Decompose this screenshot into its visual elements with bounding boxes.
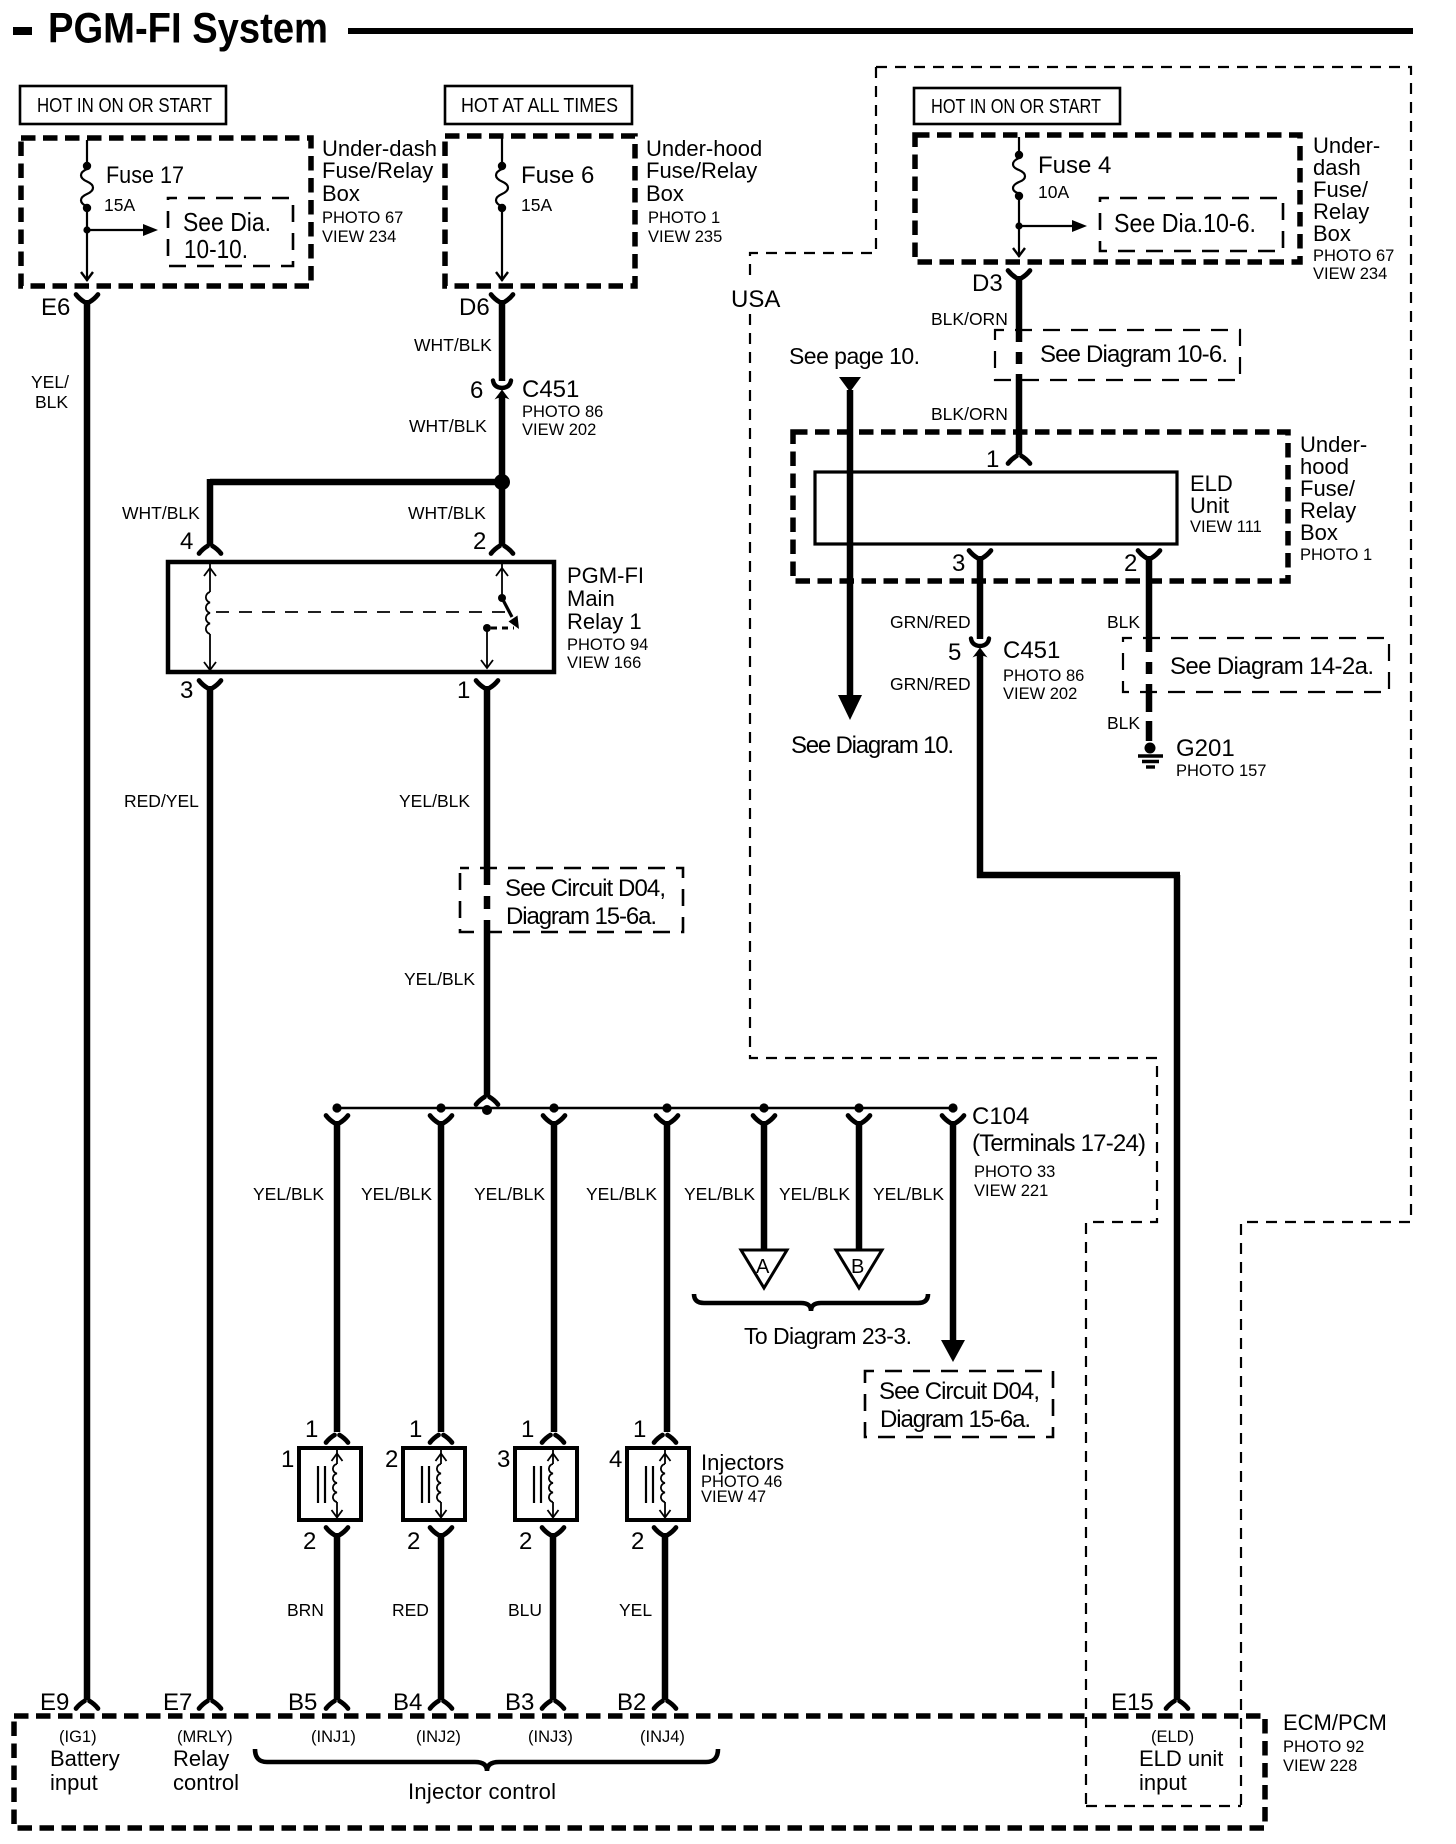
svg-text:E15: E15 (1111, 1689, 1154, 1716)
injector 1 (281, 1416, 361, 1700)
wire relay pin1 down (YEL/BLK) (484, 686, 491, 872)
under-hood fuse/relay box (dashed) (445, 136, 635, 286)
ground G201 (1138, 735, 1266, 780)
svg-text:B5: B5 (288, 1689, 317, 1716)
svg-text:3: 3 (180, 677, 193, 704)
fuse F17 wire top (86, 140, 88, 166)
svg-text:WHT/BLK: WHT/BLK (408, 503, 486, 523)
svg-text:2: 2 (407, 1528, 420, 1555)
title rule (348, 28, 1413, 34)
exit arrowhead at box edge (D3) (1013, 248, 1025, 256)
junction dot on bus (436, 1103, 445, 1112)
svg-text:See Dia.: See Dia. (183, 207, 271, 237)
svg-text:Injector control: Injector control (408, 1779, 556, 1804)
arrow to See Dia. 10-10 (87, 224, 158, 236)
relay label PGM-FI Main Relay 1 (567, 563, 648, 672)
fuse F4 wire top (1018, 137, 1020, 155)
svg-text:PHOTO 1: PHOTO 1 (1300, 546, 1372, 564)
svg-text:See Circuit D04,: See Circuit D04, (505, 875, 666, 902)
fuse F4 Fuse 4 10A (1013, 151, 1111, 202)
connector C451 pin 5 (inline pair) (948, 637, 1084, 703)
svg-text:PHOTO 92: PHOTO 92 (1283, 1738, 1364, 1756)
brace injector control (255, 1749, 718, 1771)
svg-text:Diagram 15-6a.: Diagram 15-6a. (880, 1406, 1031, 1433)
wire branch7 down (YEL/BLK) (950, 1121, 957, 1342)
svg-text:VIEW 235: VIEW 235 (648, 228, 722, 246)
svg-text:Diagram 15-6a.: Diagram 15-6a. (506, 903, 657, 930)
svg-text:B3: B3 (505, 1689, 534, 1716)
svg-text:VIEW 166: VIEW 166 (567, 654, 641, 672)
connector B4 (cap) (430, 1701, 439, 1709)
svg-text:GRN/RED: GRN/RED (890, 674, 971, 694)
svg-text:1: 1 (633, 1416, 646, 1443)
svg-text:E7: E7 (163, 1689, 192, 1716)
injector 2 (385, 1416, 465, 1700)
svg-text:Fuse/Relay: Fuse/Relay (646, 158, 757, 183)
svg-text:(Terminals 17-24): (Terminals 17-24) (972, 1130, 1146, 1157)
connector ELD pin 1 (cap) (1008, 456, 1017, 464)
connector branch 3 (cup) (543, 1116, 552, 1124)
See Diagram 14-2a. dashed box (1123, 638, 1389, 692)
connector D3 (cup) (1008, 271, 1017, 279)
svg-text:To Diagram 23-3.: To Diagram 23-3. (744, 1323, 912, 1349)
wire branch4 to injector4 (YEL/BLK) (664, 1121, 671, 1432)
See Dia.10-6. dashed box (1100, 198, 1283, 251)
wire ELD pin3 to C451 (GRN/RED) (977, 556, 984, 639)
arrowhead See Diagram 10 (838, 695, 862, 720)
svg-text:Box: Box (322, 181, 360, 206)
fuse F4 wire bottom (1018, 196, 1020, 257)
USA region dotted boundary left part upper (750, 67, 876, 282)
svg-text:VIEW 228: VIEW 228 (1283, 1757, 1357, 1775)
underhood box label (right) (1300, 432, 1372, 564)
fuse F6 wire bottom (501, 208, 503, 281)
See Circuit D04 Diagram 15-6a box (lower) (865, 1371, 1053, 1437)
svg-text:C451: C451 (522, 376, 579, 403)
svg-text:See page 10.: See page 10. (789, 343, 920, 369)
svg-text:USA: USA (731, 286, 780, 313)
injector 3 (497, 1416, 577, 1700)
svg-text:YEL/BLK: YEL/BLK (399, 791, 470, 811)
relay K1 PGM-FI Main Relay 1 box (168, 562, 554, 672)
ECM pin (ELD) ELD unit input (1139, 1728, 1223, 1795)
junction dot on bus (549, 1103, 558, 1112)
svg-text:1: 1 (281, 1446, 294, 1473)
wire C451 to junction (WHT/BLK) (499, 395, 506, 482)
svg-text:BLK: BLK (1107, 612, 1140, 632)
arrowhead into See Circuit D04 (941, 1340, 965, 1362)
wire label YEL/BLK (E6) (31, 372, 69, 412)
junction dot on bus (854, 1103, 863, 1112)
wire corner down to relay pin 4 (207, 479, 214, 546)
svg-text:2: 2 (473, 528, 486, 555)
connector branch 2 (cup) (430, 1116, 439, 1124)
wire D6 to C451 (WHT/BLK) (499, 300, 506, 381)
wire junction down to relay pin 2 (499, 482, 506, 546)
connector C451 pin 6 (inline pair) (470, 376, 603, 439)
svg-text:5: 5 (948, 639, 961, 666)
svg-text:3: 3 (497, 1446, 510, 1473)
wire down to E15 (1174, 875, 1181, 1700)
wire to bus (YEL/BLK) (484, 930, 491, 1097)
connector branch 7 (cup) (942, 1116, 951, 1124)
connector relay pin 1 (cup) (476, 681, 485, 689)
svg-text:1: 1 (409, 1416, 422, 1443)
svg-text:YEL/: YEL/ (31, 372, 69, 392)
HOT IN ON OR START box (left) (20, 86, 226, 124)
connector branch 1 (cup) (326, 1116, 335, 1124)
svg-text:VIEW 202: VIEW 202 (1003, 685, 1077, 703)
svg-text:1: 1 (305, 1416, 318, 1443)
svg-text:BLK: BLK (1107, 713, 1140, 733)
svg-text:BLK/ORN: BLK/ORN (931, 309, 1008, 329)
svg-text:2: 2 (385, 1446, 398, 1473)
underhood fuse/relay box around ELD (dashed) (793, 432, 1288, 581)
svg-text:1: 1 (986, 446, 999, 473)
svg-text:PHOTO 86: PHOTO 86 (522, 403, 603, 421)
svg-text:See Diagram 14-2a.: See Diagram 14-2a. (1170, 653, 1374, 680)
node A triangle (741, 1250, 787, 1288)
injectors label (701, 1450, 784, 1506)
under-dash fuse/relay box (right, dashed) (915, 135, 1300, 262)
relay actuator dashed line (216, 611, 508, 613)
junction dot on bus (482, 1105, 492, 1115)
connector ELD pin 3 (cup) (969, 551, 978, 559)
svg-text:BRN: BRN (287, 1600, 324, 1620)
connector B2 (cap) (654, 1701, 663, 1709)
svg-text:E6: E6 (41, 294, 70, 321)
svg-text:2: 2 (519, 1528, 532, 1555)
junction on F4 wire (1015, 222, 1022, 229)
svg-text:VIEW 221: VIEW 221 (974, 1182, 1048, 1200)
svg-text:(INJ4): (INJ4) (640, 1728, 685, 1746)
svg-text:D6: D6 (459, 294, 490, 321)
fuse F6 wire top (501, 138, 503, 166)
USA region dotted boundary left part lower (750, 314, 1157, 1806)
connector branch A (cup) (753, 1116, 762, 1124)
junction node (494, 474, 510, 490)
wire branch to node A (YEL/BLK) (761, 1121, 768, 1249)
svg-text:C451: C451 (1003, 637, 1060, 664)
svg-text:VIEW 234: VIEW 234 (322, 228, 396, 246)
svg-text:A: A (756, 1256, 770, 1278)
under-dash fuse/relay box (left, dashed) (21, 138, 311, 286)
wire ELD pin2 down (BLK) (1146, 556, 1153, 640)
svg-text:See Dia.10-6.: See Dia.10-6. (1114, 208, 1256, 238)
svg-text:WHT/BLK: WHT/BLK (414, 335, 492, 355)
HOT IN ON OR START box (right) (914, 88, 1120, 124)
svg-text:See Diagram 10.: See Diagram 10. (791, 732, 954, 759)
svg-text:G201: G201 (1176, 735, 1235, 762)
svg-text:PHOTO 1: PHOTO 1 (648, 209, 720, 227)
svg-text:PHOTO 94: PHOTO 94 (567, 636, 648, 654)
svg-text:HOT AT ALL TIMES: HOT AT ALL TIMES (461, 95, 618, 117)
svg-text:Unit: Unit (1190, 493, 1229, 518)
svg-text:VIEW 234: VIEW 234 (1313, 265, 1387, 283)
title dash (13, 27, 32, 35)
svg-text:Fuse 17: Fuse 17 (106, 162, 184, 189)
wire to ground (BLK) (1146, 692, 1153, 744)
wire D3 down (BLK/ORN) (1016, 276, 1023, 330)
svg-text:Fuse 4: Fuse 4 (1038, 152, 1111, 179)
svg-text:Fuse 6: Fuse 6 (521, 162, 594, 189)
wire relay pin3 to E7 (RED/YEL) (207, 686, 214, 1700)
svg-text:See Circuit D04,: See Circuit D04, (879, 1378, 1040, 1405)
svg-text:(IG1): (IG1) (59, 1728, 97, 1746)
arrow to See Dia.10-6 (1019, 220, 1087, 232)
arrow down from See page 10 (839, 377, 861, 392)
svg-text:WHT/BLK: WHT/BLK (409, 416, 487, 436)
connector D6 (cup) (491, 295, 500, 303)
ELD unit box (815, 472, 1177, 544)
svg-text:(INJ1): (INJ1) (311, 1728, 356, 1746)
svg-text:Injectors: Injectors (701, 1450, 784, 1475)
svg-text:Fuse/Relay: Fuse/Relay (322, 158, 433, 183)
wire branch1 to injector1 (YEL/BLK) (334, 1121, 341, 1432)
svg-text:PHOTO 67: PHOTO 67 (1313, 247, 1394, 265)
svg-text:(ELD): (ELD) (1151, 1728, 1194, 1746)
svg-text:3: 3 (952, 550, 965, 577)
svg-text:input: input (1139, 1770, 1187, 1795)
svg-text:PHOTO 86: PHOTO 86 (1003, 667, 1084, 685)
ECM pin (MRLY) Relay control (173, 1728, 239, 1795)
connector branch B (cup) (848, 1116, 857, 1124)
junction dot on bus (662, 1103, 671, 1112)
svg-text:RED/YEL: RED/YEL (124, 791, 199, 811)
relay coil branch (204, 564, 216, 670)
svg-text:HOT IN ON OR START: HOT IN ON OR START (37, 95, 212, 117)
USA region dotted boundary right part (876, 67, 1411, 1806)
svg-text:PGM-FI: PGM-FI (567, 563, 644, 588)
See Diagram 10-6. dashed box (995, 330, 1240, 380)
injector 4 (609, 1416, 689, 1700)
connector B5 (cap) (326, 1701, 335, 1709)
fuse F17 wire bottom (86, 208, 88, 281)
node B triangle (836, 1250, 882, 1288)
wire C451-5 down (GRN/RED) (977, 653, 984, 878)
svg-text:Box: Box (1313, 221, 1351, 246)
brace under A and B (694, 1294, 928, 1311)
svg-text:BLU: BLU (508, 1600, 542, 1620)
svg-text:Relay: Relay (173, 1746, 229, 1771)
svg-text:VIEW 111: VIEW 111 (1190, 518, 1262, 536)
See Circuit D04 Diagram 15-6a box (upper) (460, 868, 683, 932)
under-dash box label (322, 136, 437, 246)
bus C104 horizontal wire (334, 1107, 956, 1109)
svg-text:YEL/BLK: YEL/BLK (586, 1184, 657, 1204)
svg-text:control: control (173, 1770, 239, 1795)
svg-text:2: 2 (631, 1528, 644, 1555)
svg-text:YEL/BLK: YEL/BLK (474, 1184, 545, 1204)
connector at bus (cap) (476, 1097, 485, 1105)
connector E7 (cap) (199, 1701, 208, 1709)
svg-text:6: 6 (470, 377, 483, 404)
svg-text:15A: 15A (521, 195, 552, 215)
svg-text:(INJ2): (INJ2) (416, 1728, 461, 1746)
junction dot on bus (948, 1103, 957, 1112)
svg-text:PHOTO 67: PHOTO 67 (322, 209, 403, 227)
svg-text:GRN/RED: GRN/RED (890, 612, 971, 632)
svg-text:D3: D3 (972, 270, 1003, 297)
svg-text:B4: B4 (393, 1689, 422, 1716)
svg-text:HOT IN ON OR START: HOT IN ON OR START (931, 96, 1101, 118)
svg-text:Relay 1: Relay 1 (567, 609, 642, 634)
ECM pin (IG1) Battery input (50, 1728, 120, 1795)
svg-text:2: 2 (303, 1528, 316, 1555)
svg-text:ELD unit: ELD unit (1139, 1746, 1223, 1771)
svg-text:YEL/BLK: YEL/BLK (779, 1184, 850, 1204)
svg-text:YEL: YEL (619, 1600, 652, 1620)
svg-text:ECM/PCM: ECM/PCM (1283, 1710, 1387, 1735)
svg-text:10A: 10A (1038, 182, 1069, 202)
svg-text:Box: Box (646, 181, 684, 206)
svg-text:1: 1 (521, 1416, 534, 1443)
svg-text:C104: C104 (972, 1103, 1029, 1130)
wire junction to left corner (210, 479, 502, 486)
svg-text:YEL/BLK: YEL/BLK (361, 1184, 432, 1204)
junction dot on bus (332, 1103, 341, 1112)
wire corner to right (977, 872, 1180, 879)
connector relay pin 4 (cap) (199, 546, 208, 554)
svg-text:YEL/BLK: YEL/BLK (873, 1184, 944, 1204)
svg-text:WHT/BLK: WHT/BLK (122, 503, 200, 523)
ECM/PCM label (1283, 1710, 1387, 1775)
svg-text:YEL/BLK: YEL/BLK (404, 969, 475, 989)
svg-text:input: input (50, 1770, 98, 1795)
connector relay pin 2 (cap) (491, 546, 500, 554)
C104 label (972, 1103, 1146, 1200)
svg-text:2: 2 (1124, 550, 1137, 577)
svg-text:B: B (851, 1256, 864, 1278)
svg-text:YEL/BLK: YEL/BLK (253, 1184, 324, 1204)
junction dot on bus (759, 1103, 768, 1112)
svg-text:(INJ3): (INJ3) (528, 1728, 573, 1746)
svg-text:15A: 15A (104, 195, 135, 215)
svg-text:RED: RED (392, 1600, 429, 1620)
svg-text:(MRLY): (MRLY) (177, 1728, 233, 1746)
junction on F17 wire (83, 226, 90, 233)
wire E6 to E9 (YEL/BLK) (84, 300, 91, 1700)
wire branch2 to injector2 (YEL/BLK) (438, 1121, 445, 1432)
See Dia. 10-10. dashed box (168, 198, 293, 266)
svg-text:Box: Box (1300, 520, 1338, 545)
under-hood box label (646, 136, 762, 246)
svg-text:4: 4 (180, 528, 193, 555)
connector ELD pin 2 (cup) (1138, 551, 1147, 559)
connector E15 (cap) (1166, 1701, 1175, 1709)
connector relay pin 3 (cup) (199, 681, 208, 689)
fuse F6 Fuse 6 15A (496, 162, 594, 215)
svg-text:VIEW 202: VIEW 202 (522, 421, 596, 439)
wire branch3 to injector3 (YEL/BLK) (551, 1121, 558, 1432)
svg-text:See Diagram 10-6.: See Diagram 10-6. (1040, 341, 1228, 368)
ECM/PCM box (dashed) (14, 1716, 1265, 1828)
exit arrowhead at box edge (D6) (496, 272, 508, 280)
svg-text:PGM-FI System: PGM-FI System (48, 5, 328, 53)
svg-text:Battery: Battery (50, 1746, 120, 1771)
svg-text:B2: B2 (617, 1689, 646, 1716)
svg-text:BLK: BLK (35, 392, 68, 412)
under-dash box label (right) (1313, 133, 1394, 283)
svg-text:1: 1 (457, 677, 470, 704)
wire to ELD pin 1 (BLK/ORN) (1016, 380, 1023, 455)
wire branch to node B (YEL/BLK) (856, 1121, 863, 1249)
svg-text:10-10.: 10-10. (184, 234, 248, 264)
svg-text:PHOTO 157: PHOTO 157 (1176, 762, 1266, 780)
svg-text:VIEW 47: VIEW 47 (701, 1488, 766, 1506)
connector E9 (cap) (76, 1701, 85, 1709)
connector E6 (cup) (76, 295, 85, 303)
relay switch branch (481, 564, 519, 668)
ELD unit label (1190, 471, 1262, 536)
svg-text:YEL/BLK: YEL/BLK (684, 1184, 755, 1204)
svg-text:4: 4 (609, 1446, 622, 1473)
USA region dotted boundary bottom joint (1086, 1805, 1241, 1807)
fuse F17 Fuse 17 15A (81, 162, 184, 215)
HOT AT ALL TIMES box (445, 86, 632, 124)
svg-text:PHOTO 33: PHOTO 33 (974, 1163, 1055, 1181)
svg-text:BLK/ORN: BLK/ORN (931, 404, 1008, 424)
svg-text:E9: E9 (40, 1689, 69, 1716)
connector branch 4 (cup) (656, 1116, 665, 1124)
wire See page 10 to See Diagram 10 (847, 390, 854, 697)
connector B3 (cap) (542, 1701, 551, 1709)
svg-text:Main: Main (567, 586, 615, 611)
exit arrowhead at box edge (E6) (81, 272, 93, 280)
